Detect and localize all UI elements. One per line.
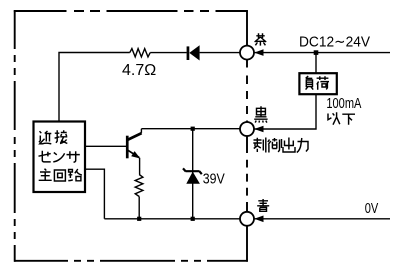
katakana sensor (sa) [67, 151, 80, 162]
wire: collector rail to black terminal [141, 129, 240, 133]
terminal circle black [240, 122, 254, 136]
diode D1 [187, 45, 200, 60]
wire: box top up to supply rail corner [59, 53, 130, 122]
zener diode ZD1 39V [183, 168, 202, 183]
sensor enclosure chain border: top side [14, 10, 248, 262]
terminal circle blue [240, 212, 254, 226]
junction dot zener top [191, 127, 195, 131]
load box [299, 73, 336, 94]
border solid below blue terminal to bottom corner [246, 226, 248, 262]
svg-text:0V: 0V [365, 200, 379, 217]
wire: diode to brown terminal [200, 52, 241, 54]
arrow into blue terminal [254, 216, 263, 223]
wire: resistor to diode [150, 52, 187, 54]
wire: zener vertical [192, 129, 194, 219]
wire: emitter down to resistor [139, 158, 141, 175]
kanji label circuit (kai) [54, 170, 65, 181]
svg-text:39V: 39V [203, 171, 226, 188]
border dashed segment between brown and black terminals [246, 60, 248, 123]
svg-text:DC12∼24V: DC12∼24V [299, 33, 371, 50]
kanji label below-100mA (ika) [328, 112, 355, 124]
wire: blue terminal to right edge 0V [254, 218, 390, 220]
kanji label black (kuro) [254, 106, 267, 122]
wire: base from box to transistor [85, 145, 126, 147]
junction dot zener bottom [191, 217, 195, 221]
arrow into black terminal [254, 126, 263, 133]
sensor enclosure chain border: left side [14, 10, 16, 262]
wire: load box bottom down and left to black terminal [254, 94, 316, 129]
wire: junction down to load box [315, 53, 317, 74]
kanji label circuit (ro) [68, 169, 82, 181]
svg-text:4.7Ω: 4.7Ω [122, 62, 156, 79]
resistor R2 emitter zigzag [135, 175, 143, 197]
kanji label blue (ao) [257, 199, 269, 211]
kanji label load (fuka) [306, 76, 329, 90]
kanji label proximity (kin) [39, 131, 51, 144]
junction dot at load tap [314, 50, 319, 55]
wire: box lower output right then down to 0V rail [85, 169, 104, 219]
kanji label brown (cha) [255, 33, 267, 45]
wire: bottom 0V rail to blue terminal [104, 218, 240, 220]
wire: brown terminal to right edge DC supply [254, 52, 390, 54]
svg-text:100mA: 100mA [326, 95, 362, 112]
sensor enclosure chain border: bottom side [14, 260, 248, 262]
katakana sensor (se) [39, 151, 51, 162]
resistor R1 4.7ohm zigzag [130, 49, 150, 57]
katakana sensor (n) [53, 153, 64, 162]
junction dot emitter resistor bottom [137, 217, 141, 221]
transistor Q1 [126, 133, 142, 158]
wire: resistor to 0V rail [138, 197, 140, 219]
kanji label proximity (setsu) [55, 130, 68, 143]
arrow into brown terminal [254, 49, 263, 56]
sensor enclosure chain border: right side solid above brown terminal [246, 10, 248, 45]
terminal circle brown [240, 46, 254, 60]
kanji label main (shu) [39, 169, 52, 181]
border dashed segment between black and blue terminals [246, 136, 248, 212]
kanji label control output (seigyo shutsuryoku) [253, 138, 308, 153]
sensor main circuit box [34, 122, 86, 193]
